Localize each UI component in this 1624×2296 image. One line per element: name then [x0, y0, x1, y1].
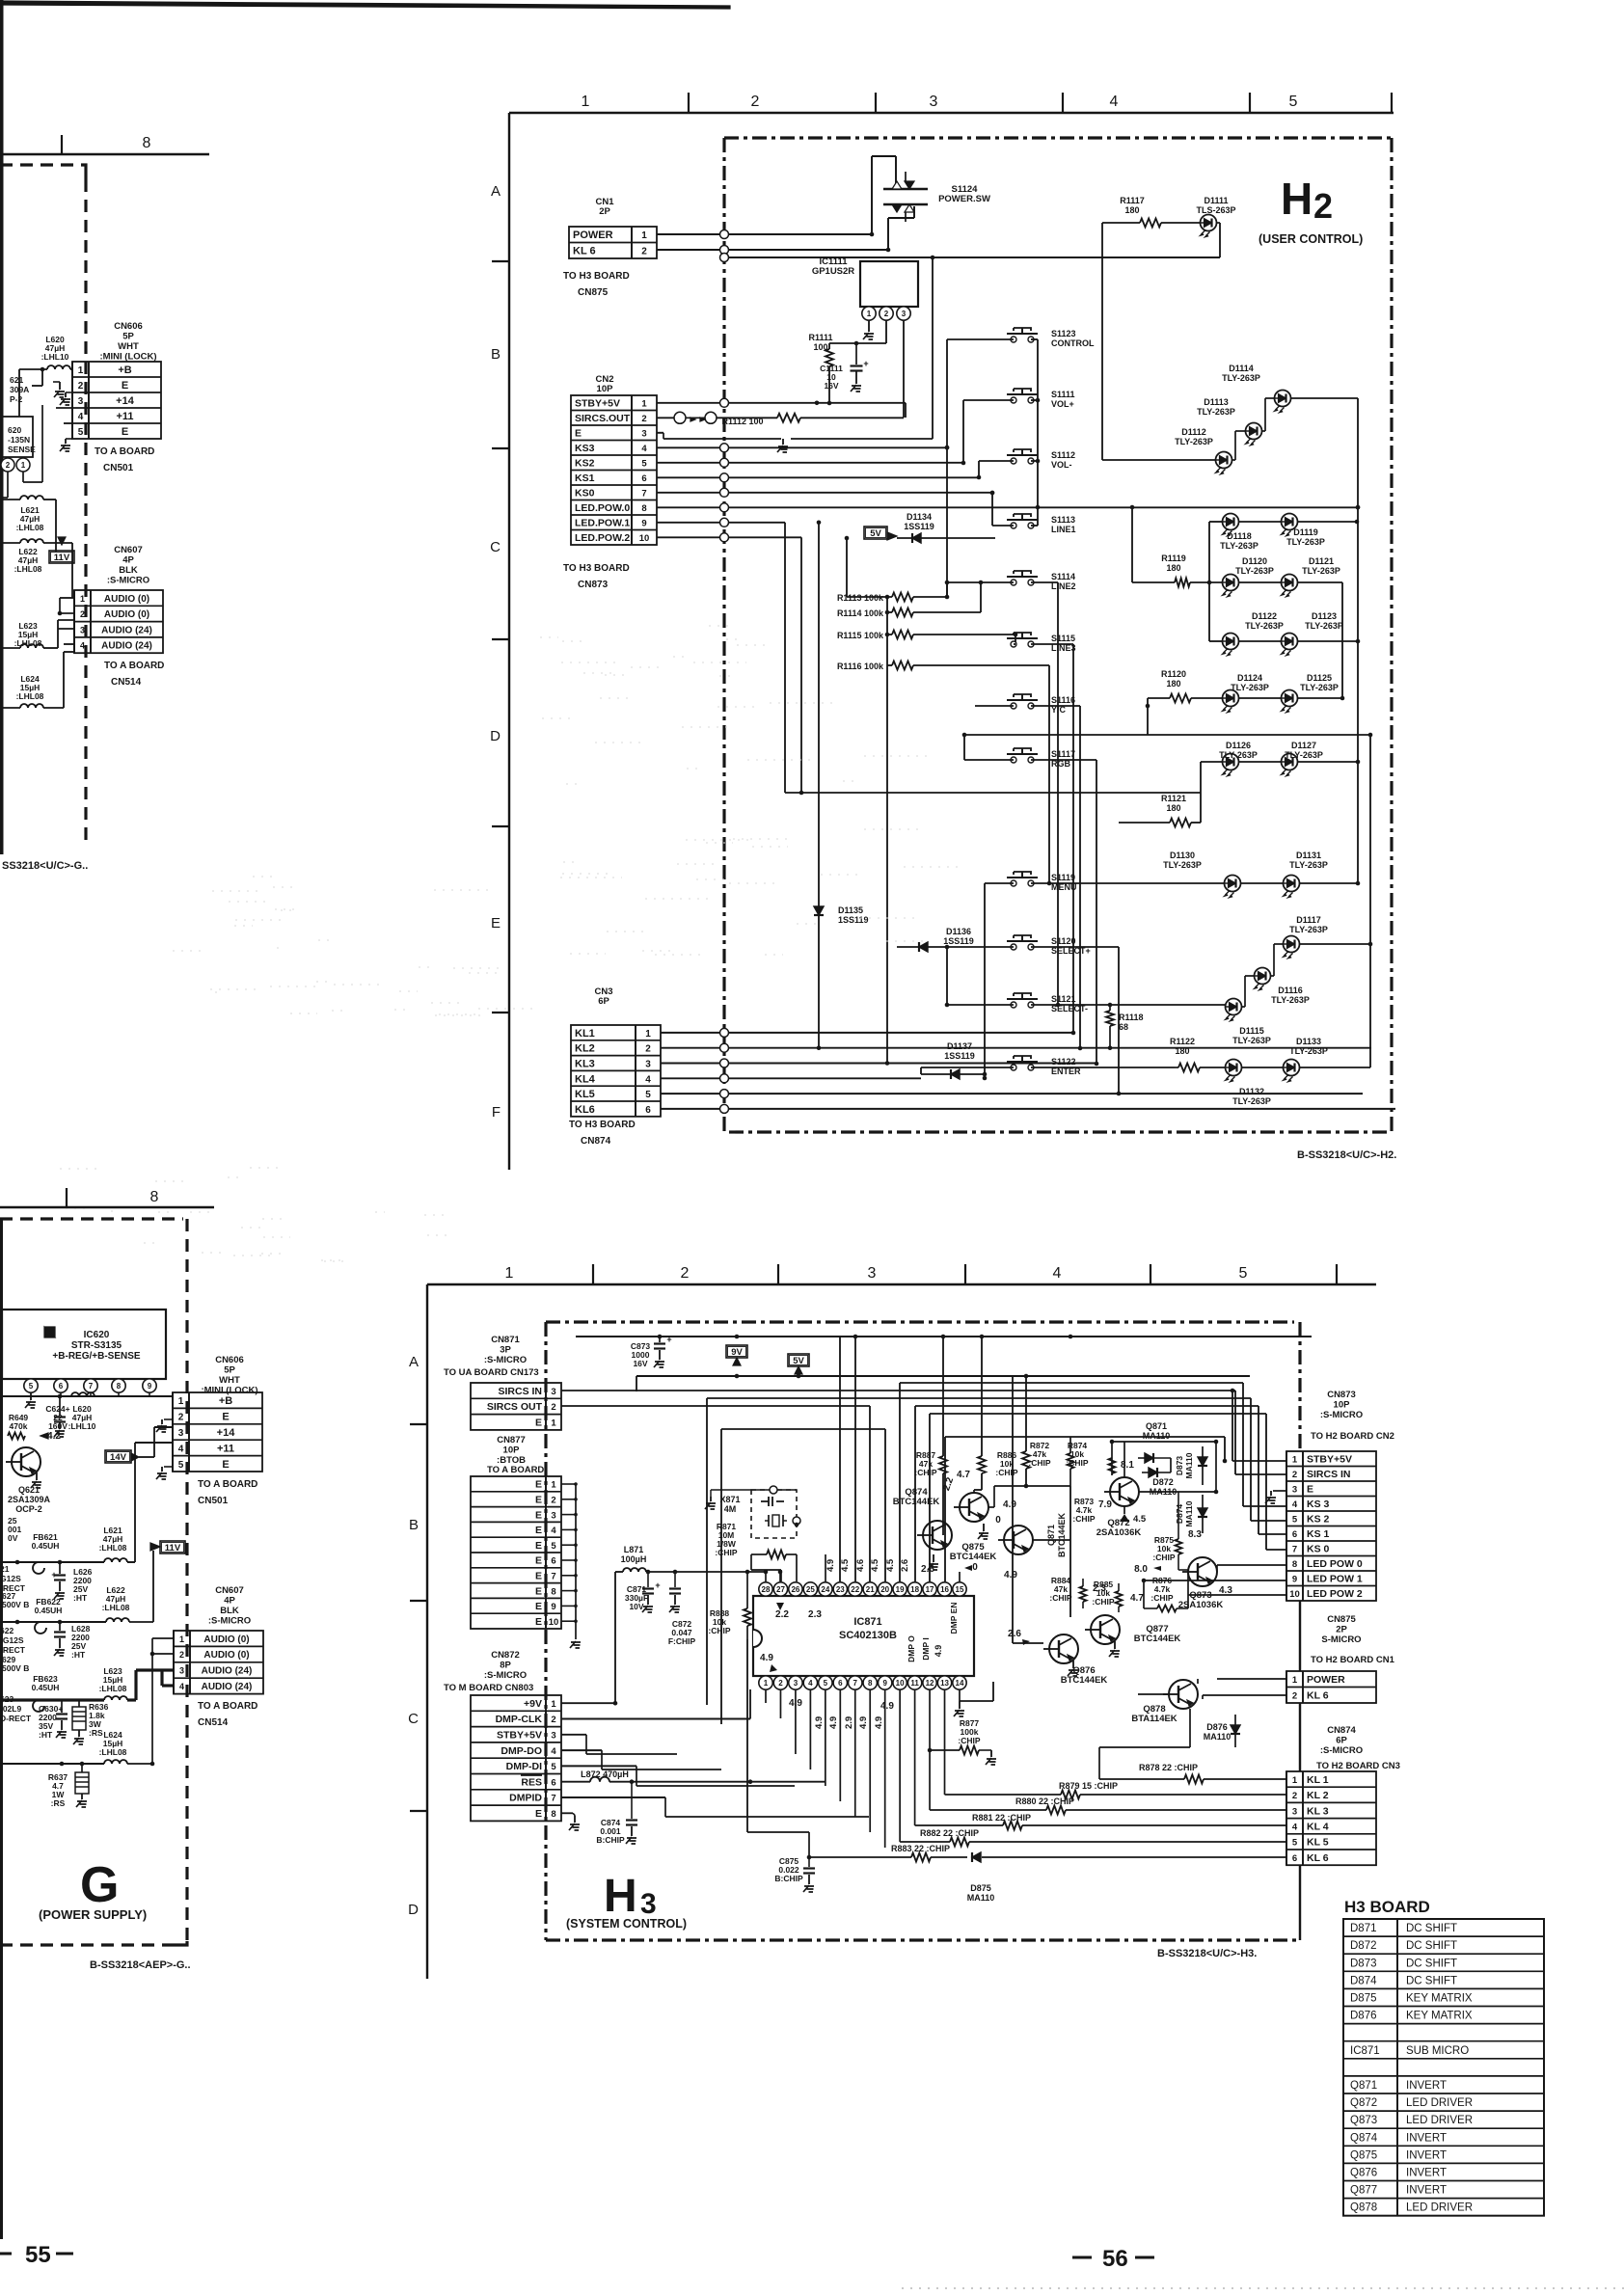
svg-text:E: E — [535, 1555, 542, 1567]
wire row join — [964, 734, 1370, 736]
svg-text:1: 1 — [505, 1265, 514, 1282]
svg-text::CHIP: :CHIP — [1028, 1458, 1050, 1468]
svg-text:500V B: 500V B — [2, 1600, 29, 1609]
svg-text:Q872: Q872 — [1350, 2097, 1377, 2109]
svg-text:4: 4 — [551, 1746, 556, 1757]
svg-text:2: 2 — [78, 381, 84, 392]
svg-text:10V: 10V — [629, 1602, 643, 1611]
transistor Q877 — [1091, 1615, 1120, 1644]
svg-text::LHL10: :LHL10 — [68, 1421, 96, 1431]
svg-text:4: 4 — [179, 1682, 184, 1691]
svg-text:-135N: -135N — [8, 435, 30, 445]
svg-text:8P: 8P — [500, 1661, 511, 1671]
svg-text:20: 20 — [880, 1585, 889, 1594]
svg-text:R1115 100k: R1115 100k — [837, 631, 884, 640]
svg-text::CHIP: :CHIP — [715, 1548, 737, 1557]
svg-text::S-MICRO: :S-MICRO — [1320, 1745, 1363, 1756]
svg-text:1: 1 — [582, 94, 590, 110]
svg-text:TO H2 BOARD CN2: TO H2 BOARD CN2 — [1311, 1431, 1394, 1442]
svg-text:2: 2 — [1313, 186, 1333, 226]
svg-text:LINE1: LINE1 — [1051, 525, 1076, 534]
svg-text:R880 22 :CHIP: R880 22 :CHIP — [1015, 1796, 1074, 1806]
wire KS2 hook — [1251, 1520, 1286, 1522]
H2 sheet left frame — [508, 113, 510, 1170]
ground CN606 pins — [66, 392, 72, 393]
svg-text:7: 7 — [551, 1794, 555, 1804]
svg-text:SC402130B: SC402130B — [839, 1630, 897, 1641]
svg-text:CN501: CN501 — [103, 463, 134, 473]
svg-text:14V: 14V — [110, 1452, 127, 1463]
svg-text:TLY-263P: TLY-263P — [1302, 566, 1340, 576]
svg-text:1: 1 — [1292, 1455, 1298, 1466]
svg-text:9: 9 — [551, 1602, 555, 1612]
svg-text::CHIP: :CHIP — [958, 1736, 980, 1745]
svg-text:1: 1 — [551, 1480, 556, 1491]
svg-text:4.7: 4.7 — [1130, 1593, 1144, 1604]
svg-text:D1131: D1131 — [1296, 851, 1321, 860]
svg-text:R878 22 :CHIP: R878 22 :CHIP — [1139, 1763, 1198, 1772]
svg-text:-G12S: -G12S — [0, 1635, 24, 1645]
svg-text:3: 3 — [645, 1059, 651, 1069]
svg-text:4.7: 4.7 — [957, 1470, 970, 1480]
svg-text:R1113 100k: R1113 100k — [837, 593, 884, 603]
svg-text:D875: D875 — [1350, 1992, 1377, 2004]
svg-text:H3 BOARD: H3 BOARD — [1344, 1898, 1430, 1916]
svg-text:5P: 5P — [224, 1365, 235, 1376]
svg-text:22: 22 — [851, 1585, 859, 1594]
svg-text:LED POW 2: LED POW 2 — [1307, 1588, 1363, 1600]
svg-text:6: 6 — [641, 473, 646, 484]
svg-text:R1119: R1119 — [1161, 554, 1186, 563]
LED D1122 D1123 row — [1209, 640, 1223, 642]
svg-text:2: 2 — [778, 1679, 783, 1688]
svg-text:S1116: S1116 — [1051, 695, 1075, 705]
svg-text:180: 180 — [1166, 679, 1180, 689]
svg-text:3: 3 — [1292, 1485, 1297, 1496]
svg-text:BTA114EK: BTA114EK — [1131, 1714, 1177, 1724]
svg-text:E: E — [222, 1412, 229, 1423]
wire CN2 pin4 KS3 — [657, 446, 947, 448]
power node 9V — [726, 1345, 747, 1358]
svg-text:3: 3 — [641, 429, 646, 440]
svg-text::S-MICRO: :S-MICRO — [107, 576, 149, 586]
svg-text::LHL10: :LHL10 — [41, 352, 69, 362]
svg-text:21: 21 — [0, 1564, 10, 1574]
crystal X871 4M — [751, 1490, 797, 1538]
svg-text:9: 9 — [882, 1679, 887, 1688]
svg-text:3: 3 — [551, 1387, 555, 1397]
svg-text:-02L9: -02L9 — [0, 1704, 21, 1714]
wire +B rail — [2, 1395, 173, 1397]
svg-text:27: 27 — [776, 1585, 785, 1594]
svg-text:4: 4 — [1053, 1265, 1062, 1282]
svg-text:TLY-263P: TLY-263P — [1232, 1036, 1271, 1045]
svg-text:TLY-263P: TLY-263P — [1245, 621, 1284, 631]
svg-text:1: 1 — [645, 1029, 651, 1040]
svg-text:CN877: CN877 — [497, 1435, 526, 1445]
svg-text:2.2: 2.2 — [775, 1609, 789, 1620]
svg-text::HT: :HT — [71, 1650, 86, 1660]
svg-text:55: 55 — [25, 2242, 51, 2268]
svg-text:Q878: Q878 — [1350, 2202, 1377, 2214]
svg-text:TO H2 BOARD CN1: TO H2 BOARD CN1 — [1311, 1655, 1395, 1665]
svg-text:500V B: 500V B — [2, 1663, 29, 1673]
svg-text:9: 9 — [148, 1382, 152, 1391]
svg-text:2.6: 2.6 — [900, 1559, 910, 1572]
svg-text:OCP-2: OCP-2 — [15, 1504, 42, 1514]
LED staircase D1112-D1114 — [1102, 459, 1215, 461]
page 56 — [1072, 2255, 1092, 2258]
svg-text:DC SHIFT: DC SHIFT — [1406, 1940, 1457, 1952]
svg-text:17: 17 — [926, 1585, 934, 1594]
svg-text:POWER.SW: POWER.SW — [938, 194, 990, 204]
svg-text:1: 1 — [551, 1418, 556, 1429]
wire E return riser — [791, 438, 933, 440]
svg-text:C: C — [408, 1711, 419, 1727]
svg-text:KL 2: KL 2 — [1307, 1790, 1329, 1801]
svg-text::S-MICRO: :S-MICRO — [1320, 1410, 1363, 1420]
svg-text:D1137: D1137 — [947, 1041, 972, 1051]
svg-text:D1124: D1124 — [1237, 673, 1262, 683]
svg-text::LHL08: :LHL08 — [99, 1684, 127, 1693]
svg-text:E: E — [535, 1585, 542, 1597]
switch S1115 — [1011, 641, 1016, 647]
svg-text:TO A BOARD: TO A BOARD — [95, 446, 154, 457]
svg-text:CN501: CN501 — [198, 1496, 229, 1506]
svg-text:DMP EN: DMP EN — [949, 1603, 959, 1634]
svg-text:7.9: 7.9 — [1098, 1499, 1112, 1510]
wire LED return bus — [729, 257, 1220, 258]
svg-text:1SS119: 1SS119 — [943, 936, 974, 946]
svg-text:4.9: 4.9 — [874, 1716, 884, 1729]
power node 5V — [864, 527, 887, 539]
svg-text:TLY-263P: TLY-263P — [1300, 683, 1339, 692]
svg-text:CN607: CN607 — [114, 545, 143, 555]
svg-text:622: 622 — [0, 1626, 14, 1635]
svg-text:DMP-DO: DMP-DO — [501, 1745, 542, 1757]
svg-text:5: 5 — [551, 1762, 556, 1772]
svg-text:R1114 100k: R1114 100k — [837, 608, 884, 618]
svg-text:6: 6 — [1292, 1529, 1297, 1540]
svg-text:DMP-DI: DMP-DI — [506, 1761, 542, 1772]
svg-text:DMP-CLK: DMP-CLK — [496, 1714, 543, 1725]
wire H3 top bus 5V — [636, 1375, 1250, 1377]
svg-text:4: 4 — [551, 1526, 556, 1536]
svg-text:D1134: D1134 — [907, 512, 932, 522]
wire CN2 pin9 LED.POW.1 — [657, 522, 785, 524]
svg-text:SIRCS IN: SIRCS IN — [498, 1386, 542, 1397]
svg-text:D872: D872 — [1152, 1477, 1174, 1487]
svg-text:TLY-263P: TLY-263P — [1285, 750, 1323, 760]
svg-text:TLY-263P: TLY-263P — [1235, 566, 1274, 576]
svg-text:3: 3 — [178, 1428, 184, 1439]
svg-text:TO A BOARD: TO A BOARD — [198, 1479, 257, 1490]
power node 14V — [105, 1450, 131, 1463]
transistor Q873 — [1188, 1557, 1217, 1586]
svg-text:3: 3 — [794, 1679, 798, 1688]
svg-text:5: 5 — [641, 459, 647, 470]
svg-text:Q876: Q876 — [1350, 2167, 1377, 2178]
svg-text:2SA1309A: 2SA1309A — [8, 1495, 51, 1504]
svg-text:4.9: 4.9 — [1004, 1570, 1017, 1580]
svg-text:DMPID: DMPID — [509, 1793, 542, 1804]
svg-text:D872: D872 — [1350, 1940, 1377, 1952]
svg-text:TO A BOARD: TO A BOARD — [198, 1701, 257, 1712]
svg-text:R879 15 :CHIP: R879 15 :CHIP — [1059, 1781, 1118, 1791]
svg-text:AUDIO (24): AUDIO (24) — [202, 1682, 253, 1692]
svg-text:620: 620 — [8, 425, 21, 435]
switch S1120 — [1011, 944, 1016, 950]
svg-text:9: 9 — [641, 519, 646, 529]
svg-text:-RECT: -RECT — [0, 1645, 26, 1655]
svg-text:3: 3 — [78, 396, 84, 407]
svg-text::LHL08: :LHL08 — [14, 564, 42, 574]
svg-text:Q877: Q877 — [1350, 2185, 1377, 2197]
svg-text:D873: D873 — [1350, 1958, 1377, 1969]
svg-text:E: E — [535, 1540, 542, 1552]
svg-text:C: C — [490, 539, 501, 555]
svg-text::LHL08: :LHL08 — [99, 1543, 127, 1553]
svg-text:S1119: S1119 — [1051, 873, 1075, 882]
svg-text:TO H2 BOARD CN3: TO H2 BOARD CN3 — [1316, 1761, 1400, 1771]
svg-text:180: 180 — [1166, 563, 1180, 573]
wire SIRCS IN net — [545, 1391, 547, 1392]
wire G upper — [18, 369, 20, 417]
svg-text::MINI (LOCK): :MINI (LOCK) — [201, 1386, 257, 1396]
svg-text:470k: 470k — [10, 1421, 28, 1431]
svg-text:4.9: 4.9 — [828, 1716, 839, 1729]
svg-text:11: 11 — [910, 1679, 919, 1688]
svg-text::S-MICRO: :S-MICRO — [208, 1616, 251, 1627]
svg-text:5: 5 — [78, 427, 84, 438]
svg-text:180: 180 — [1124, 205, 1139, 215]
wire CN2 pin3 E — [657, 432, 663, 434]
svg-text:BTC144EK: BTC144EK — [1057, 1512, 1067, 1557]
switch S1119 — [1011, 880, 1016, 886]
svg-text:11V: 11V — [54, 553, 70, 563]
svg-text:BTC144EK: BTC144EK — [1134, 1634, 1181, 1644]
svg-text:8.0: 8.0 — [1134, 1564, 1148, 1575]
svg-text:1: 1 — [80, 594, 85, 604]
switch S1113 — [1011, 523, 1016, 528]
svg-text:INVERT: INVERT — [1406, 2132, 1447, 2144]
transistor Q621 lower — [12, 1447, 41, 1476]
svg-text:10P: 10P — [503, 1445, 521, 1456]
svg-text:D1133: D1133 — [1296, 1037, 1321, 1046]
svg-text:D1130: D1130 — [1170, 851, 1195, 860]
svg-text:3: 3 — [930, 94, 938, 110]
svg-text:Q871: Q871 — [1350, 2080, 1377, 2092]
wire CN1 pins to S1124 — [657, 233, 872, 235]
wire KS3 hook — [1243, 1505, 1286, 1507]
svg-text:WHT: WHT — [219, 1375, 240, 1386]
svg-text:TLY-263P: TLY-263P — [1163, 860, 1202, 870]
svg-text:56: 56 — [1102, 2246, 1128, 2272]
wire SIRCS OUT hook — [561, 1405, 870, 1407]
svg-text:23: 23 — [836, 1585, 845, 1594]
svg-text:4: 4 — [1292, 1499, 1298, 1510]
svg-text:2: 2 — [751, 94, 760, 110]
svg-text:6: 6 — [1292, 1853, 1297, 1864]
svg-text:68: 68 — [1119, 1022, 1128, 1032]
LED D1132 D1133 row — [1226, 1060, 1242, 1076]
svg-text:R882 22 :CHIP: R882 22 :CHIP — [920, 1828, 979, 1838]
svg-text:8.3: 8.3 — [1188, 1529, 1202, 1540]
svg-text:CN875: CN875 — [1327, 1614, 1356, 1625]
svg-text:KS2: KS2 — [575, 458, 595, 470]
wire CN2 pin8 LED.POW.0 — [657, 506, 1358, 508]
svg-text:4.9: 4.9 — [858, 1716, 869, 1729]
svg-text:S1113: S1113 — [1051, 515, 1075, 525]
svg-text:4: 4 — [178, 1444, 184, 1454]
wire POWER / KL6 rows — [1217, 1678, 1286, 1680]
svg-text:5V: 5V — [793, 1356, 804, 1366]
svg-text:5V: 5V — [870, 528, 881, 539]
svg-text:R1111: R1111 — [808, 333, 832, 342]
svg-text:LED DRIVER: LED DRIVER — [1406, 2115, 1473, 2126]
svg-text:KL1: KL1 — [575, 1028, 595, 1040]
svg-text:D1132: D1132 — [1239, 1087, 1264, 1096]
svg-text:KL 1: KL 1 — [1307, 1774, 1329, 1786]
svg-text:4: 4 — [808, 1679, 813, 1688]
switch S1123 — [1011, 337, 1016, 342]
svg-text::LHL08: :LHL08 — [99, 1747, 127, 1757]
H3 sheet ruler — [427, 1283, 1376, 1285]
svg-text:R1120: R1120 — [1161, 669, 1186, 679]
svg-text:3: 3 — [80, 625, 85, 635]
svg-text:IC871: IC871 — [853, 1616, 881, 1628]
svg-text:6: 6 — [551, 1777, 555, 1788]
svg-text:R883 22 :CHIP: R883 22 :CHIP — [891, 1844, 950, 1853]
H3 dash-dot border — [546, 1320, 1294, 1323]
svg-text:R881 22 :CHIP: R881 22 :CHIP — [972, 1813, 1031, 1823]
svg-text:8: 8 — [150, 1189, 159, 1205]
svg-text:B:CHIP: B:CHIP — [774, 1874, 803, 1883]
svg-text:2SA1036K: 2SA1036K — [1096, 1527, 1142, 1538]
svg-text:TLY-263P: TLY-263P — [1271, 995, 1310, 1005]
svg-text:D1127: D1127 — [1291, 741, 1316, 750]
svg-text:D1111: D1111 — [1204, 196, 1228, 205]
svg-text:8: 8 — [117, 1382, 122, 1391]
svg-text:(SYSTEM CONTROL): (SYSTEM CONTROL) — [566, 1917, 687, 1931]
svg-text:KEY MATRIX: KEY MATRIX — [1406, 1992, 1473, 2004]
svg-text:4.2: 4.2 — [47, 1431, 61, 1442]
svg-text:4.9: 4.9 — [826, 1559, 836, 1572]
svg-text:D1112: D1112 — [1181, 427, 1206, 437]
svg-text:1: 1 — [1292, 1775, 1298, 1786]
LED staircase D1115-D1117 — [1201, 1004, 1225, 1006]
power node 11V — [49, 551, 74, 563]
svg-text:Q874: Q874 — [1350, 2132, 1378, 2144]
svg-text:E: E — [1307, 1484, 1313, 1496]
svg-text::CHIP: :CHIP — [1092, 1597, 1114, 1607]
svg-text:KS0: KS0 — [575, 488, 595, 500]
svg-text:AUDIO (0): AUDIO (0) — [203, 1634, 249, 1645]
wire IC bottom pins — [765, 1689, 767, 1703]
wire LED POW rows — [1217, 1564, 1286, 1566]
svg-text:8: 8 — [641, 503, 646, 514]
svg-text:POWER: POWER — [1307, 1674, 1345, 1686]
svg-text:10P: 10P — [1334, 1400, 1351, 1411]
svg-text:CN514: CN514 — [111, 677, 142, 688]
svg-text:2.3: 2.3 — [808, 1609, 822, 1620]
svg-text:D-RECT: D-RECT — [0, 1714, 32, 1723]
svg-text:2.9: 2.9 — [844, 1716, 854, 1729]
svg-text:D1113: D1113 — [1204, 397, 1229, 407]
svg-text:LED.POW.1: LED.POW.1 — [575, 518, 630, 529]
svg-text:E: E — [575, 428, 582, 440]
svg-text:15: 15 — [956, 1585, 964, 1594]
svg-text:R1122: R1122 — [1170, 1037, 1195, 1046]
svg-text:12: 12 — [926, 1679, 934, 1688]
svg-text:100µH: 100µH — [621, 1554, 647, 1564]
svg-text:CN514: CN514 — [198, 1717, 229, 1728]
svg-text:6: 6 — [645, 1105, 651, 1116]
svg-text:S1117: S1117 — [1051, 749, 1075, 759]
svg-text:KS 0: KS 0 — [1307, 1544, 1330, 1555]
svg-text:8: 8 — [868, 1679, 873, 1688]
svg-text:R1121: R1121 — [1161, 794, 1186, 803]
svg-text:H: H — [1281, 174, 1313, 224]
svg-text:KL 3: KL 3 — [1307, 1805, 1329, 1817]
svg-text:VOL-: VOL- — [1051, 460, 1072, 470]
svg-text:B:CHIP: B:CHIP — [596, 1835, 625, 1845]
svg-text:S1115: S1115 — [1051, 634, 1075, 643]
svg-text:4: 4 — [645, 1074, 651, 1085]
svg-text:621: 621 — [10, 375, 23, 385]
svg-text:GP1US2R: GP1US2R — [812, 266, 854, 277]
svg-text:4: 4 — [641, 444, 647, 454]
svg-text:TO A BOARD: TO A BOARD — [487, 1465, 544, 1475]
svg-text:MA110: MA110 — [1184, 1452, 1194, 1478]
svg-text:S1111: S1111 — [1051, 390, 1075, 399]
switch S1124 — [883, 188, 928, 190]
switch S1116 — [1011, 703, 1016, 709]
svg-text:VOL+: VOL+ — [1051, 399, 1074, 409]
svg-text:E: E — [535, 1418, 542, 1429]
wire CN607 lower — [152, 1637, 174, 1639]
svg-text:LED.POW.0: LED.POW.0 — [575, 502, 630, 514]
svg-text:+14: +14 — [217, 1427, 236, 1439]
svg-text:19: 19 — [896, 1585, 905, 1594]
svg-text:L871: L871 — [624, 1545, 644, 1554]
svg-text:LED DRIVER: LED DRIVER — [1406, 2097, 1473, 2109]
svg-text:TLY-263P: TLY-263P — [1232, 1096, 1271, 1106]
svg-text:0V: 0V — [8, 1533, 18, 1543]
svg-text:28: 28 — [762, 1585, 771, 1594]
svg-text:D1116: D1116 — [1278, 986, 1303, 995]
svg-text:F: F — [492, 1104, 501, 1121]
svg-text:1: 1 — [78, 365, 84, 376]
svg-text:0.45UH: 0.45UH — [32, 1541, 60, 1551]
svg-text:D876: D876 — [1350, 2011, 1377, 2022]
svg-text:IC620: IC620 — [84, 1330, 110, 1340]
svg-text:3: 3 — [640, 1888, 657, 1920]
IC620 STR-S3135 — [2, 1310, 166, 1379]
svg-text:CN607: CN607 — [215, 1585, 244, 1596]
svg-text:STBY+5V: STBY+5V — [575, 398, 620, 410]
svg-text:8: 8 — [551, 1809, 555, 1820]
switch S1117 — [1011, 757, 1016, 763]
svg-text::LHL08: :LHL08 — [16, 523, 44, 532]
svg-text:11V: 11V — [165, 1543, 181, 1553]
H3 sheet left frame — [426, 1284, 428, 1979]
svg-text:D1121: D1121 — [1309, 556, 1334, 566]
svg-text:D874: D874 — [1175, 1504, 1184, 1525]
wire Q872 area — [1123, 1442, 1125, 1477]
svg-text:1: 1 — [641, 230, 647, 241]
svg-text:B: B — [491, 346, 501, 363]
